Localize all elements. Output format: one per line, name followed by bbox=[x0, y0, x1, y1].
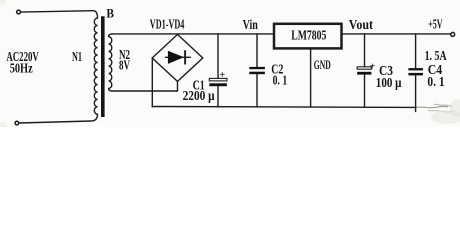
svg-text:0. 1: 0. 1 bbox=[273, 73, 288, 88]
svg-text:Vin: Vin bbox=[243, 17, 259, 32]
svg-text:100 μ: 100 μ bbox=[376, 75, 402, 90]
svg-text:1. 5A: 1. 5A bbox=[425, 48, 447, 63]
svg-text:N1: N1 bbox=[72, 49, 82, 64]
svg-text:VD1-VD4: VD1-VD4 bbox=[150, 17, 185, 32]
svg-text:Vout: Vout bbox=[349, 17, 374, 32]
svg-text:LM7805: LM7805 bbox=[291, 28, 326, 43]
svg-text:+: + bbox=[219, 70, 225, 81]
svg-text:50Hz: 50Hz bbox=[10, 61, 33, 76]
svg-text:+: + bbox=[370, 61, 376, 72]
svg-text:8V: 8V bbox=[119, 58, 130, 73]
svg-text:2200 μ: 2200 μ bbox=[183, 88, 215, 103]
svg-text:B: B bbox=[106, 6, 114, 21]
svg-text:0. 1: 0. 1 bbox=[427, 74, 444, 89]
svg-text:GND: GND bbox=[314, 57, 331, 72]
svg-text:+5V: +5V bbox=[428, 17, 443, 32]
